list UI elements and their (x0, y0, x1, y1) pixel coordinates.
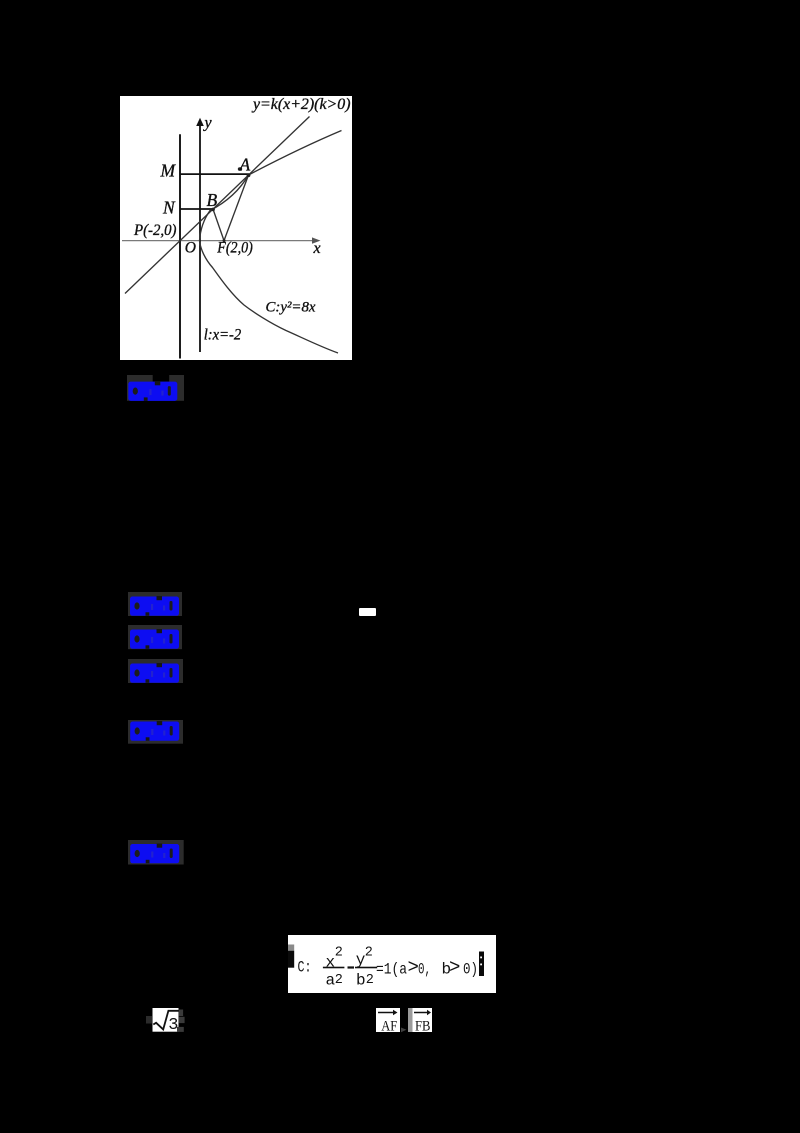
svg-text:2: 2 (366, 973, 374, 988)
segment A-F (224, 175, 249, 241)
sqrt3 box (146, 1008, 185, 1032)
stray dot left of A (238, 167, 242, 170)
svg-text:A: A (239, 154, 251, 174)
cursor block (479, 952, 484, 977)
svg-text:0): 0) (463, 960, 478, 978)
svg-text:AF: AF (381, 1018, 397, 1032)
AF vector box (376, 1008, 400, 1033)
svg-text:M: M (160, 160, 177, 180)
blue chip 6 (128, 840, 184, 865)
svg-text:y=k(x+2)(k>0): y=k(x+2)(k>0) (251, 96, 351, 113)
svg-text:b: b (356, 971, 366, 989)
dot between vectors (401, 1020, 408, 1026)
parabola lower branch (200, 240, 339, 352)
svg-text:2: 2 (365, 946, 373, 961)
svg-text:=1(a: =1(a (376, 960, 407, 978)
x-axis (122, 239, 316, 241)
directrix l (179, 134, 181, 358)
left edge marks (288, 945, 294, 951)
x-axis arrowhead (312, 237, 321, 243)
svg-text:3: 3 (168, 1016, 178, 1032)
svg-text:F(2,0): F(2,0) (216, 239, 252, 256)
figure: parabola diagram panel (120, 96, 352, 360)
svg-text:N: N (162, 197, 176, 217)
shared blue blob def (0, 0, 1, 1)
svg-text:>: > (449, 957, 460, 979)
segment B-F (213, 209, 224, 240)
blue chip 5 (128, 720, 184, 744)
svg-text:y: y (203, 114, 213, 131)
y-axis (199, 123, 201, 352)
svg-text:C:y²=8x: C:y²=8x (266, 299, 316, 315)
svg-text:P(-2,0): P(-2,0) (133, 222, 176, 239)
dot F (223, 239, 226, 242)
svg-text:2: 2 (335, 946, 343, 961)
minus (348, 966, 355, 968)
line y=k(x+2) (125, 116, 310, 293)
y-axis arrowhead (196, 117, 204, 125)
dot A (247, 173, 251, 177)
svg-text:0,: 0, (418, 960, 431, 978)
dot B (211, 207, 215, 211)
svg-text:FB: FB (415, 1018, 431, 1032)
svg-text:B: B (207, 189, 218, 209)
blue chip 4 (128, 659, 183, 683)
parabola upper branch (200, 130, 342, 240)
M horizontal line (180, 173, 249, 175)
blue chip 2 (128, 592, 182, 616)
svg-text:x: x (326, 954, 336, 972)
blue chip 3 (128, 625, 182, 649)
blue chip 1 (127, 375, 185, 401)
svg-text:x: x (313, 240, 321, 257)
svg-text:O: O (185, 239, 196, 256)
formula box: hyperbola equation (288, 935, 496, 993)
svg-text:C:: C: (298, 958, 312, 976)
svg-text:2: 2 (335, 973, 343, 988)
white dash (359, 608, 376, 617)
N horizontal line (180, 208, 213, 210)
svg-text:l:x=-2: l:x=-2 (204, 326, 242, 343)
